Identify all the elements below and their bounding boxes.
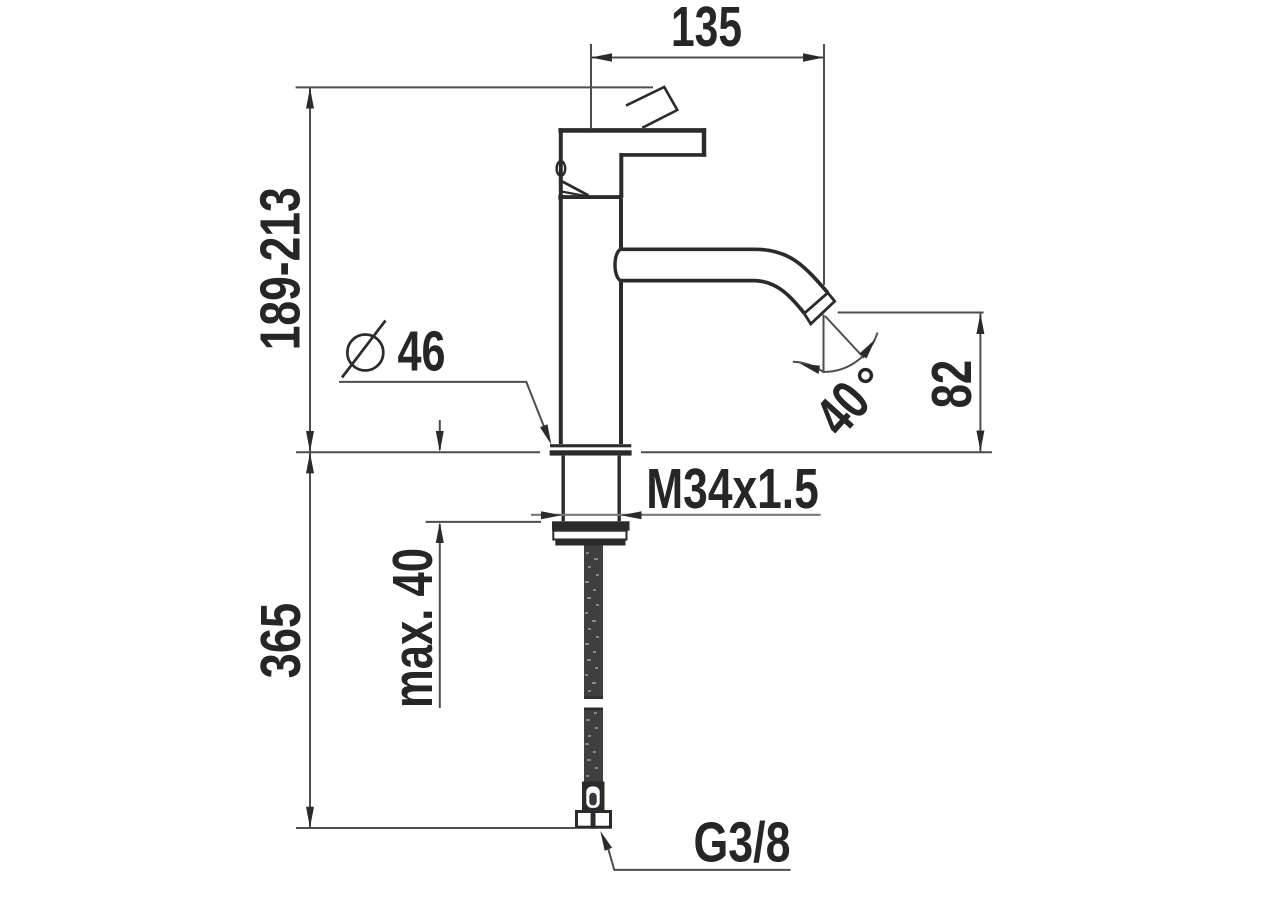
arrow G3/8 — [600, 831, 612, 851]
countertop reference line — [296, 451, 992, 453]
arrow arc left — [800, 364, 820, 375]
lever pivot bump — [557, 161, 566, 176]
dia 46 leader line — [339, 382, 549, 438]
arrow arc right — [860, 339, 876, 359]
arrow 82 bottom — [976, 431, 984, 452]
svg-text:46: 46 — [398, 320, 446, 383]
svg-text:189-213: 189-213 — [249, 187, 312, 350]
arrow 135 right — [803, 53, 824, 61]
faucet lever handle — [626, 87, 677, 128]
svg-text:M34x1.5: M34x1.5 — [646, 457, 819, 520]
arrow 365 top — [306, 453, 314, 474]
svg-text:max. 40: max. 40 — [381, 548, 444, 708]
dimension line 365 (left vertical lower) — [296, 452, 575, 828]
arrow max40 bottom — [436, 522, 444, 543]
svg-text:82: 82 — [920, 360, 983, 409]
flexible hose (braided) — [583, 546, 604, 786]
svg-text:G3/8: G3/8 — [694, 811, 791, 874]
faucet head (cartridge housing) — [558, 128, 706, 198]
arrow dia46 — [540, 424, 551, 444]
G3/8 connector nut — [577, 810, 611, 829]
label 40 deg (rotated) — [803, 369, 882, 447]
M34x1.5 dimension line (over shank) — [531, 514, 821, 516]
spout — [614, 249, 835, 324]
arrow 189-213 top — [306, 88, 314, 109]
arrow M34 left — [541, 511, 562, 519]
arrow 365 bottom — [306, 807, 314, 828]
dimension line 82 (right vertical) — [838, 313, 984, 452]
hose break gap — [583, 699, 604, 709]
svg-text:135: 135 — [671, 0, 742, 58]
lever lower wedge — [562, 181, 589, 196]
head-body seam — [558, 195, 622, 199]
arrow max40 top — [436, 431, 444, 452]
arrow 135 left — [591, 53, 612, 61]
spout left rounded cap — [615, 249, 622, 280]
faucet body column — [561, 199, 621, 444]
dimension line 189-213 (left vertical) — [296, 87, 653, 452]
arrow 82 top — [976, 313, 984, 334]
G3/8 leader line — [608, 849, 790, 870]
arrow 189-213 bottom — [306, 431, 314, 452]
max.40 dimension arrows — [426, 420, 541, 708]
flange (base plate) — [550, 444, 632, 455]
arrow M34 right — [621, 511, 642, 519]
dimension line 135 (top horizontal) — [591, 44, 824, 285]
mounting nut — [552, 521, 630, 545]
hose end ferrule — [582, 782, 605, 811]
threaded shank — [563, 456, 619, 522]
svg-text:365: 365 — [249, 603, 312, 679]
angle 40deg reference lines and arc — [793, 315, 878, 373]
spout tip face — [804, 293, 835, 324]
diameter symbol — [342, 321, 386, 378]
